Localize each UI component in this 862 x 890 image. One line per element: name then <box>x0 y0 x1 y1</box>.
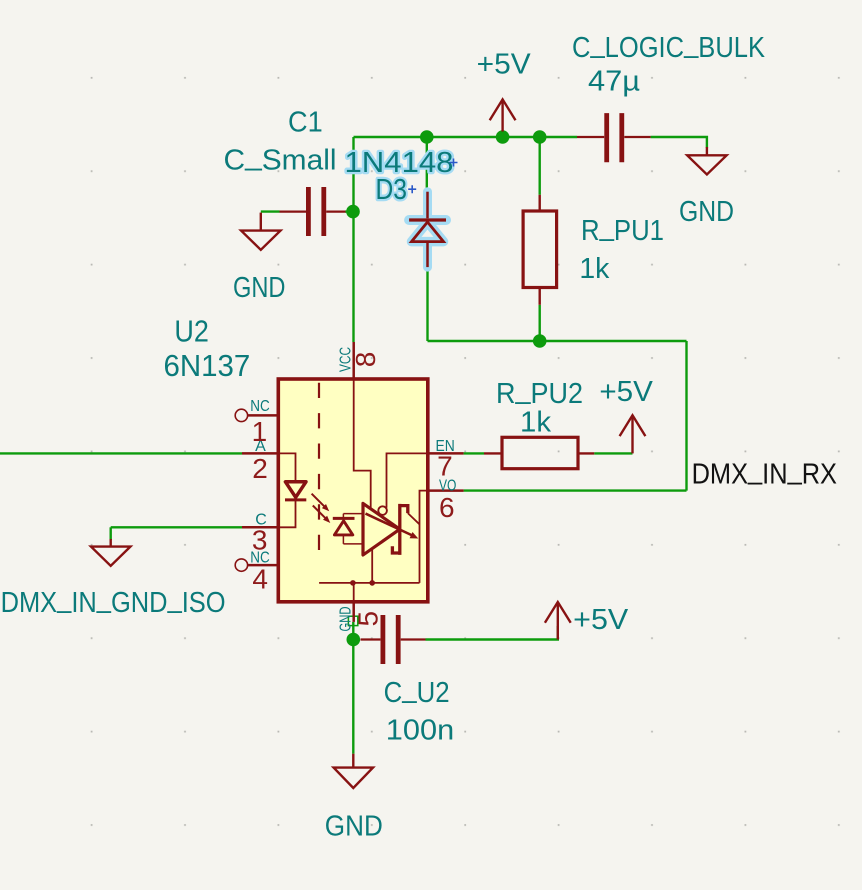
U2 enable bubble <box>378 506 387 515</box>
svg-text:7: 7 <box>437 450 453 481</box>
wire top rail right segment (cap to GND corner) <box>651 137 707 148</box>
resistor R_PU2 <box>484 437 594 468</box>
U2 pin 2 (A) <box>242 452 278 455</box>
wire top rail left segment (+5V rail) <box>354 136 578 138</box>
wire pin2 A to left edge <box>0 452 242 454</box>
svg-text:C_LOGIC_BULK: C_LOGIC_BULK <box>572 28 766 65</box>
wire R_PU2 to +5V <box>594 452 632 454</box>
svg-text:DMX_IN_GND_ISO: DMX_IN_GND_ISO <box>1 582 226 619</box>
wire pin7 to R_PU2 <box>464 452 484 454</box>
wire D3 top branch <box>426 137 428 192</box>
U2 pin 1 (NC) <box>235 409 278 421</box>
wire C1 right lead to VCC drop <box>345 210 354 212</box>
U2 pin 4 (NC) <box>235 559 278 571</box>
anchor mark + (1N4148) <box>450 159 458 167</box>
pin5 end square marker <box>348 616 357 625</box>
U2 hysteresis-to-output link <box>408 513 420 524</box>
U2 internal VO link (pin6) <box>420 491 429 583</box>
svg-text:U2: U2 <box>174 313 209 348</box>
wire pin6 to RX label <box>464 489 687 491</box>
U2 light arrow 1 <box>312 494 325 507</box>
wire C_U2 right to +5V corner <box>426 626 558 640</box>
ground GND (bottom) <box>334 754 373 788</box>
svg-text:GND: GND <box>679 196 734 228</box>
resistor R_PU1 <box>523 195 557 305</box>
svg-text:C_U2: C_U2 <box>384 672 450 709</box>
wire pin3 GND stub <box>109 527 111 540</box>
U2 pin 6 (VO) <box>428 489 464 492</box>
svg-text:2: 2 <box>252 453 268 484</box>
junction +5V/top rail <box>496 130 510 144</box>
svg-text:4: 4 <box>252 564 268 595</box>
wire C1 left to GND corner <box>261 210 280 212</box>
ground GND (pin3 DMX_IN_GND_ISO) <box>91 539 130 566</box>
svg-text:C_Small: C_Small <box>224 140 337 177</box>
capacitor C_LOGIC_BULK <box>577 113 651 162</box>
op-coupler U2 6N137 body <box>278 379 428 602</box>
svg-text:47µ: 47µ <box>588 65 640 97</box>
U2 pin 5 (GND) <box>352 602 355 622</box>
svg-text:100n: 100n <box>386 715 454 747</box>
wire RX right drop <box>685 341 687 491</box>
svg-text:NC: NC <box>250 398 270 415</box>
U2 photodiode cathode bar <box>333 517 355 520</box>
svg-text:1k: 1k <box>520 407 551 439</box>
U2 LED cathode bar <box>285 498 306 501</box>
svg-text:GND: GND <box>233 272 286 304</box>
U2 pin 7 (EN) <box>428 452 464 455</box>
power +5V (top rail) <box>490 99 516 131</box>
power +5V (C_U2) <box>545 602 571 640</box>
diode D3 1N4148 (selected, cyan halo) <box>409 192 446 267</box>
U2 pin name texts <box>250 347 456 632</box>
U2 pin number texts <box>252 352 455 627</box>
capacitor C_U2 <box>361 615 426 664</box>
U2 photodiode triangle <box>334 521 352 535</box>
U2 internal EN link (pin7) <box>387 453 429 507</box>
svg-text:C1: C1 <box>288 106 323 138</box>
junction dots <box>346 130 546 646</box>
wire pin3 C to GND corner <box>111 526 242 528</box>
U2 isolation dashed line <box>318 383 320 561</box>
junction D3/top rail <box>420 130 434 144</box>
wire RX mid rail <box>428 340 687 342</box>
svg-text:+5V: +5V <box>573 604 629 636</box>
junction C1/VCC drop <box>346 205 360 219</box>
wire D3 bottom to RX rail <box>426 267 428 341</box>
U2 pin 8 (VCC) <box>352 342 355 379</box>
svg-text:3: 3 <box>252 525 268 556</box>
svg-text:6N137: 6N137 <box>164 348 251 383</box>
ground GND (C1) <box>241 213 280 250</box>
svg-text:DMX_IN_RX: DMX_IN_RX <box>692 454 837 491</box>
U2 internal GND link (pin5) <box>319 548 419 603</box>
U2 light arrow 2 <box>313 506 326 519</box>
U2 pin 3 (C) <box>242 526 278 529</box>
wire pin5 GND vertical <box>352 622 354 754</box>
U2 internal junction dots <box>350 580 356 586</box>
svg-text:+5V: +5V <box>599 376 653 408</box>
svg-text:R_PU1: R_PU1 <box>581 210 664 247</box>
svg-text:1k: 1k <box>579 253 609 285</box>
U2 amplifier triangle <box>363 503 400 555</box>
U2 photodiode links <box>343 514 362 544</box>
anchor mark + (D3) <box>408 185 416 193</box>
power +5V (R_PU2) <box>620 415 646 453</box>
U2 internal VCC link (pin8) <box>354 379 371 510</box>
U2 output arrow <box>366 514 414 536</box>
svg-text:6: 6 <box>439 492 455 523</box>
wire VCC vertical drop to U2 pin 8 <box>352 137 354 342</box>
junction pin5/C_U2 <box>347 633 361 647</box>
svg-text:1N4148: 1N4148 <box>345 147 454 179</box>
U2 hysteresis symbol <box>392 504 407 555</box>
junction R_PU1/top rail <box>533 130 547 144</box>
svg-text:R_PU2: R_PU2 <box>496 374 583 411</box>
ground GND (top right) <box>687 147 726 175</box>
wire R_PU1 bottom <box>539 305 541 341</box>
svg-text:1: 1 <box>252 416 268 447</box>
svg-text:8: 8 <box>350 352 381 368</box>
U2 LED emitter triangle <box>285 482 306 498</box>
junction R_PU1/RX rail <box>533 334 547 348</box>
svg-text:5: 5 <box>353 611 384 627</box>
capacitor C1 <box>280 187 346 236</box>
wire R_PU1 top <box>539 137 541 195</box>
svg-text:+5V: +5V <box>477 48 532 80</box>
svg-text:GND: GND <box>325 811 383 843</box>
U2 internal LED link (pin2/pin3) <box>278 453 295 527</box>
